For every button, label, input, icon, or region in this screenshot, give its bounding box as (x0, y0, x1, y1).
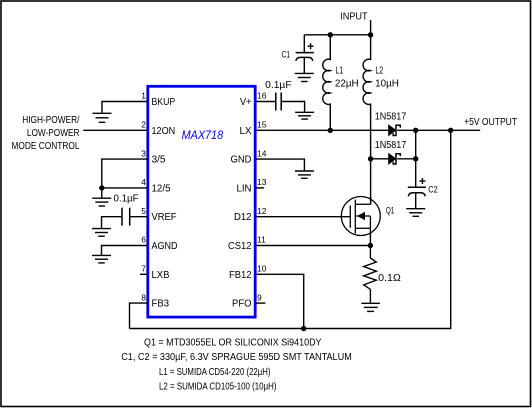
ground at pin14 GND (295, 171, 314, 178)
junction dot +5V feedback (448, 128, 453, 133)
svg-text:0.1µF: 0.1µF (114, 194, 139, 205)
svg-text:FB12: FB12 (229, 270, 252, 281)
ground at C4 V+ cap (295, 112, 314, 119)
wire +5V node down to C2 (415, 130, 417, 187)
svg-text:L2: L2 (375, 65, 383, 76)
wire pin12 D12 gate lead (255, 216, 350, 218)
IC U1 MAX718 body (148, 86, 255, 317)
junction dot L2 top / input (368, 32, 373, 37)
ground at C3 VREF cap (92, 229, 111, 237)
svg-text:8: 8 (141, 292, 146, 302)
svg-text:1: 1 (141, 91, 146, 101)
svg-text:L1: L1 (336, 65, 344, 76)
svg-text:AGND: AGND (152, 241, 178, 252)
ground at pin6 AGND (92, 255, 111, 263)
ground at resistor R1 (361, 303, 380, 311)
inductor L1 (323, 35, 331, 131)
wire pin15 LX to diode D1 anode (255, 129, 388, 131)
svg-text:2: 2 (141, 120, 146, 130)
svg-text:4: 4 (141, 177, 146, 187)
wire pin11 CS12 to source node (255, 245, 370, 247)
svg-text:C1: C1 (282, 49, 291, 60)
wire INPUT drop (370, 20, 372, 35)
svg-text:1N5817: 1N5817 (375, 140, 407, 151)
diode D1 1N5817 (389, 125, 401, 136)
svg-text:9: 9 (257, 292, 262, 302)
svg-text:MODE CONTROL: MODE CONTROL (12, 141, 80, 152)
wire pin6 AGND to ground (102, 246, 148, 256)
wire C1 to ground (303, 58, 305, 73)
svg-text:15: 15 (257, 120, 267, 130)
svg-text:LOW-POWER: LOW-POWER (27, 128, 80, 139)
diode D2 1N5817 (389, 154, 401, 165)
junction dot L1 bottom LX (328, 128, 333, 133)
wire pin4 node to ground (101, 188, 103, 198)
wire top rail (304, 34, 370, 36)
wire L2 bottom to mosfet drain (370, 159, 372, 205)
capacitor C2 polarized (408, 187, 426, 196)
svg-text:BKUP: BKUP (152, 97, 176, 108)
wire resistor to ground (369, 289, 371, 303)
svg-text:LX: LX (240, 126, 252, 137)
svg-text:6: 6 (141, 235, 146, 245)
C2 plus sign (419, 178, 425, 184)
resistor R1 0.1 ohm (364, 258, 377, 289)
svg-text:LXB: LXB (152, 270, 170, 281)
capacitor C3 0.1uF at VREF (122, 208, 130, 226)
ground at pin1 BKUP (93, 113, 112, 122)
capacitor C4 0.1uF at V+ (276, 93, 281, 111)
ground at C1 (295, 73, 314, 81)
wire pin14 GND to ground (255, 159, 304, 171)
wire mosfet source to resistor (369, 234, 371, 259)
wire pin13 LIN stub (255, 187, 264, 189)
wire pin8 FB3 down to bottom rail (130, 303, 148, 328)
svg-text:10: 10 (257, 264, 267, 274)
wire pin3 3/5 down to pin4 (102, 159, 148, 188)
svg-text:10µH: 10µH (375, 78, 399, 89)
wire pin9 PFO stub (255, 302, 265, 304)
svg-text:0.1µF: 0.1µF (265, 80, 291, 91)
svg-text:CS12: CS12 (228, 241, 252, 252)
wire diode D2 row (371, 158, 389, 160)
svg-text:FB3: FB3 (152, 299, 170, 310)
ground at C2 (406, 209, 425, 217)
transistor Q1 MOSFET (341, 197, 380, 236)
junction dot L1 top (328, 32, 333, 37)
svg-text:GND: GND (231, 155, 252, 166)
svg-text:13: 13 (257, 177, 267, 187)
wire capacitor C4 right to ground (281, 102, 304, 113)
junction dot mosfet source CS12 (368, 243, 373, 248)
junction dot D1 cathode node (413, 128, 418, 133)
wire pin2 12ON mode control lead (83, 129, 148, 131)
node label HIGH-POWER/LOW-POWER MODE CONTROL (12, 115, 80, 152)
svg-text:1N5817: 1N5817 (375, 111, 407, 122)
wire C2 to ground (415, 193, 417, 209)
svg-text:C2: C2 (428, 184, 437, 195)
wire pin10 FB12 down to bottom rail (255, 274, 304, 328)
wire D1 cathode to +5V output (397, 129, 480, 131)
svg-text:3: 3 (141, 148, 146, 158)
svg-text:PFO: PFO (232, 299, 252, 310)
junction dot D2 cathode node (413, 156, 418, 161)
wire pin16 V+ stub to capacitor C4 (255, 101, 276, 103)
svg-text:11: 11 (257, 235, 266, 245)
svg-text:12/5: 12/5 (152, 183, 171, 194)
svg-text:D12: D12 (234, 212, 252, 223)
wire pin7 LXB stub (140, 273, 148, 275)
svg-text:V+: V+ (240, 97, 252, 108)
svg-text:16: 16 (257, 91, 267, 101)
junction dot L2 bottom D2 anode (368, 156, 373, 161)
svg-text:22µH: 22µH (335, 78, 359, 89)
wire pin4 12/5 (102, 187, 148, 189)
svg-text:HIGH-POWER/: HIGH-POWER/ (22, 115, 79, 126)
svg-text:+5V OUTPUT: +5V OUTPUT (464, 117, 517, 128)
svg-text:MAX718: MAX718 (182, 128, 224, 142)
svg-text:12: 12 (257, 206, 267, 216)
C1 plus sign (308, 43, 314, 49)
junction dot pin4 ground node (99, 185, 104, 190)
svg-text:7: 7 (141, 264, 146, 274)
svg-text:5: 5 (141, 206, 146, 216)
wire C1 lead from rail (303, 35, 305, 52)
wire capacitor C3 left to ground (102, 217, 123, 229)
svg-text:3/5: 3/5 (152, 155, 166, 166)
wire pin1 BKUP to ground (102, 102, 148, 115)
svg-text:INPUT: INPUT (340, 10, 368, 22)
wire bottom feedback rail (130, 130, 451, 328)
svg-text:14: 14 (257, 148, 267, 158)
svg-text:VREF: VREF (152, 212, 177, 223)
wire pin5 VREF to capacitor (130, 216, 148, 218)
capacitor C1 polarized (296, 53, 314, 61)
svg-text:Q1: Q1 (386, 205, 394, 216)
inductor L2 (363, 35, 371, 159)
svg-text:0.1Ω: 0.1Ω (378, 273, 401, 284)
ground at pin4 12/5 (92, 198, 111, 206)
junction dot FB12 bottom rail (301, 326, 306, 331)
wire D2 cathode to C2 node (397, 158, 416, 160)
svg-text:C1, C2 = 330µF, 6.3V SPRAGUE 5: C1, C2 = 330µF, 6.3V SPRAGUE 595D SMT TA… (121, 352, 352, 363)
svg-text:L2 = SUMIDA CD105-100 (10µH): L2 = SUMIDA CD105-100 (10µH) (159, 381, 277, 392)
svg-text:LIN: LIN (237, 183, 252, 194)
svg-text:Q1 = MTD3055EL OR SILICONIX Si: Q1 = MTD3055EL OR SILICONIX Si9410DY (144, 337, 322, 348)
svg-text:L1 = SUMIDA CD54-220 (22µH): L1 = SUMIDA CD54-220 (22µH) (159, 367, 271, 378)
svg-text:12ON: 12ON (152, 126, 176, 137)
Q1 substrate arrow (357, 212, 365, 220)
